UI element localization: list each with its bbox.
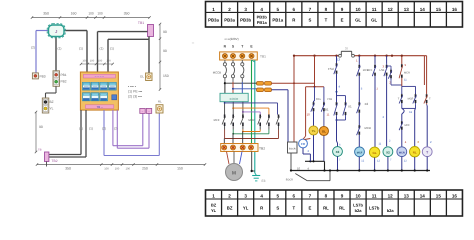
svg-text:150: 150 (177, 167, 183, 171)
svg-text:90: 90 (39, 125, 43, 129)
svg-text:10: 10 (356, 193, 362, 198)
svg-text:(1): (1) (89, 127, 93, 131)
svg-text:TB1: TB1 (260, 55, 266, 59)
svg-text:350: 350 (43, 12, 49, 16)
svg-text:TB2: TB2 (259, 147, 265, 151)
svg-text:(1): (1) (100, 47, 104, 51)
svg-text:100: 100 (88, 12, 94, 16)
svg-text:EOCR: EOCR (289, 148, 296, 151)
svg-text:8: 8 (325, 193, 328, 198)
svg-text:13: 13 (337, 58, 341, 62)
svg-text:6: 6 (293, 7, 296, 12)
svg-text:90: 90 (163, 49, 167, 53)
svg-text:12: 12 (388, 7, 394, 12)
svg-text:– – – –: – – – – (95, 74, 105, 78)
svg-text:X1: X1 (348, 105, 352, 109)
svg-text:16: 16 (452, 193, 458, 198)
svg-text:PB2: PB2 (61, 80, 67, 84)
svg-text:GL: GL (355, 18, 361, 23)
svg-text:1: 1 (212, 7, 215, 12)
svg-text:100: 100 (82, 60, 87, 63)
svg-text:100: 100 (90, 60, 95, 63)
svg-text:RL: RL (323, 205, 329, 210)
svg-text:YL: YL (243, 205, 249, 210)
svg-text:MCF: MCF (367, 69, 373, 72)
svg-text:RL: RL (339, 205, 345, 210)
svg-text:PB3a: PB3a (208, 18, 219, 23)
svg-text:LS7b: LS7b (353, 202, 363, 207)
svg-text:250: 250 (142, 167, 148, 171)
svg-text:PB3a: PB3a (224, 18, 235, 23)
svg-text:▪▪ ▪▪(220V): ▪▪ ▪▪(220V) (225, 37, 239, 41)
svg-text:YL: YL (211, 208, 217, 213)
svg-text:1: 1 (212, 193, 215, 198)
svg-text:11: 11 (327, 113, 330, 117)
svg-text:RL: RL (413, 150, 417, 154)
svg-text:3: 3 (244, 193, 247, 198)
svg-text:(1): (1) (79, 127, 83, 131)
svg-text:15: 15 (436, 193, 442, 198)
svg-text:(1): (1) (58, 47, 62, 51)
svg-text:15: 15 (436, 7, 442, 12)
svg-text:b2a: b2a (387, 208, 395, 213)
svg-text:MCR: MCR (408, 98, 414, 101)
svg-text:(1): (1) (110, 47, 114, 51)
svg-text:6: 6 (293, 193, 296, 198)
svg-text:BZ: BZ (50, 100, 54, 104)
svg-text:E3: E3 (262, 179, 266, 183)
svg-text:11: 11 (409, 110, 412, 114)
svg-text:350: 350 (65, 167, 71, 171)
svg-text:TB –: TB – (96, 105, 103, 109)
svg-text:GL: GL (373, 151, 377, 155)
svg-text:PB1a: PB1a (272, 18, 283, 23)
svg-text:150: 150 (163, 74, 169, 78)
svg-text:MCF: MCF (357, 151, 363, 154)
svg-text:GL: GL (140, 75, 144, 79)
svg-text:12: 12 (388, 193, 394, 198)
svg-text:S: S (308, 18, 311, 23)
svg-text:100: 100 (125, 167, 130, 170)
svg-text:TB: TB (38, 148, 42, 152)
svg-text:11: 11 (372, 7, 377, 12)
svg-text:(2) (3) ▪▪▪: (2) (3) ▪▪▪ (128, 94, 143, 98)
svg-text:14: 14 (420, 7, 426, 12)
svg-text:YL: YL (50, 107, 54, 111)
svg-text:GL: GL (371, 18, 377, 23)
svg-text:100: 100 (106, 60, 111, 63)
svg-text:9: 9 (341, 193, 344, 198)
svg-text:11: 11 (372, 193, 377, 198)
svg-text:FRb: FRb (327, 98, 332, 101)
svg-text:2: 2 (228, 7, 231, 12)
svg-text:MCR: MCR (399, 151, 405, 154)
svg-text:100: 100 (97, 12, 103, 16)
svg-text:YL: YL (312, 129, 316, 133)
svg-text:2: 2 (228, 193, 231, 198)
svg-text:BZ: BZ (211, 202, 217, 207)
svg-text:MCCB: MCCB (213, 71, 221, 75)
svg-text:160: 160 (71, 12, 77, 16)
svg-text:FRa: FRa (316, 98, 321, 101)
svg-text:T: T (429, 97, 431, 101)
svg-text:100: 100 (104, 167, 109, 170)
svg-text:10: 10 (307, 113, 311, 117)
svg-text:▪ ▪▪▪ ▪: ▪ ▪▪▪ ▪ (128, 84, 137, 88)
svg-text:EOCR: EOCR (230, 97, 240, 101)
svg-text:TB1: TB1 (138, 21, 144, 25)
svg-text:MCF: MCF (405, 124, 411, 127)
svg-text:37: 37 (345, 46, 349, 50)
svg-text:3: 3 (244, 7, 247, 12)
svg-text:16: 16 (452, 7, 458, 12)
svg-text:S: S (276, 205, 279, 210)
svg-text:4: 4 (260, 193, 263, 198)
svg-text:4: 4 (260, 7, 263, 12)
svg-text:(2): (2) (102, 127, 106, 131)
svg-text:PB3b: PB3b (257, 15, 268, 20)
svg-text:(2): (2) (31, 46, 35, 50)
svg-text:X2: X2 (365, 102, 369, 106)
svg-text:OL: OL (322, 130, 326, 134)
svg-text:J: J (55, 29, 57, 34)
svg-text:MCR: MCR (365, 126, 371, 130)
svg-text:5: 5 (276, 7, 279, 12)
svg-text:BZ: BZ (227, 205, 233, 210)
svg-text:7: 7 (309, 7, 312, 12)
svg-text:7: 7 (309, 193, 312, 198)
svg-text:TB2: TB2 (52, 159, 58, 163)
svg-text:90: 90 (163, 30, 167, 34)
svg-text:RL: RL (158, 100, 162, 104)
svg-text:13: 13 (404, 193, 410, 198)
svg-text:PB1: PB1 (323, 108, 329, 112)
svg-text:PB1a: PB1a (257, 20, 268, 25)
svg-text:8: 8 (325, 7, 328, 12)
svg-text:M: M (232, 171, 236, 177)
svg-text:T: T (398, 97, 400, 101)
svg-text:MCF: MCF (214, 119, 220, 122)
svg-text:E: E (308, 205, 311, 210)
svg-text:100: 100 (98, 60, 103, 63)
svg-text:MCR: MCR (248, 119, 254, 122)
svg-text:EOCR: EOCR (286, 179, 293, 182)
svg-text:10: 10 (297, 167, 301, 171)
svg-text:14: 14 (420, 193, 426, 198)
svg-text:PB3: PB3 (40, 75, 46, 79)
svg-text:X2: X2 (386, 150, 390, 154)
svg-text:10: 10 (356, 7, 362, 12)
svg-text:T: T (293, 205, 296, 210)
svg-text:5: 5 (276, 193, 279, 198)
svg-text:E: E (341, 18, 344, 23)
svg-text:LS7b: LS7b (369, 205, 380, 210)
svg-text:X3: X3 (336, 150, 340, 154)
svg-text:9: 9 (341, 7, 344, 12)
svg-text:(1): (1) (79, 47, 83, 51)
svg-text:350: 350 (124, 12, 130, 16)
svg-text:100: 100 (115, 167, 120, 170)
svg-text:LS1: LS1 (380, 68, 385, 72)
svg-text:T: T (325, 18, 328, 23)
svg-text:(1) PE ▪▪▪: (1) PE ▪▪▪ (128, 89, 143, 93)
svg-text:PB3b: PB3b (240, 18, 251, 23)
svg-text:b2a: b2a (355, 208, 363, 213)
svg-text:PB1: PB1 (61, 73, 67, 77)
svg-text:13: 13 (404, 7, 410, 12)
svg-text:FSd: FSd (328, 67, 334, 71)
svg-text:MCR: MCR (404, 72, 410, 75)
